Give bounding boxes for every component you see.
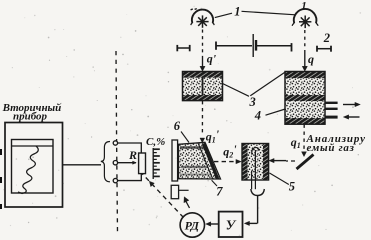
svg-text:5: 5: [289, 179, 295, 193]
svg-text:q: q: [308, 52, 314, 66]
svg-text:РД: РД: [185, 219, 200, 233]
svg-text:q1: q1: [291, 135, 301, 150]
svg-text:3: 3: [249, 95, 256, 109]
svg-text:1: 1: [301, 0, 307, 12]
svg-text:q1': q1': [206, 127, 220, 144]
svg-text:7: 7: [216, 185, 223, 199]
svg-text:прибор: прибор: [13, 111, 48, 123]
svg-text:6: 6: [174, 119, 181, 133]
svg-text:q': q': [207, 52, 217, 66]
svg-text:У: У: [226, 217, 237, 232]
svg-text:2: 2: [323, 31, 330, 45]
svg-text:R: R: [128, 148, 137, 162]
svg-text:С,%: С,%: [146, 136, 165, 148]
svg-text:емый газ: емый газ: [307, 142, 355, 154]
svg-text:4: 4: [254, 109, 261, 123]
svg-text:q2': q2': [223, 142, 237, 159]
svg-text:1: 1: [234, 4, 240, 18]
